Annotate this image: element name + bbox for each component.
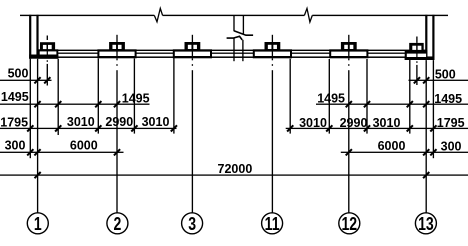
column 11 (grid 11) cap windows [268, 45, 277, 49]
svg-text:6000: 6000 [70, 139, 98, 153]
tick row D wall face left [27, 149, 33, 155]
column 1 axis dash above cap [47, 36, 48, 41]
tick row C wall face left [27, 125, 33, 131]
tick row D grid 12 [346, 149, 352, 155]
label 1495 mid right [317, 91, 345, 105]
tick row A grid 13 [423, 77, 429, 83]
svg-text:1495: 1495 [434, 92, 462, 106]
tick row A column 1 axis [44, 77, 50, 83]
label 500 right [435, 68, 456, 82]
tick row E grid 13 [423, 172, 429, 178]
left wall inner line [36, 15, 38, 55]
tick row B x409 [407, 101, 413, 107]
column 12 (grid 12) cap windows [344, 45, 353, 49]
grid bubble 1 [27, 213, 48, 235]
column 3 (grid 3) axis stub [192, 35, 193, 45]
middle break line left upper [233, 15, 234, 31]
svg-text:1: 1 [34, 214, 42, 234]
extension line at 329.3 [329, 59, 330, 134]
svg-text:500: 500 [8, 66, 29, 80]
eaves line segment 1 [20, 15, 154, 16]
grid line 12 [348, 58, 349, 213]
wall band line 3 [37, 56, 434, 58]
svg-text:2990: 2990 [105, 115, 133, 129]
grid bubble 3 [182, 213, 203, 235]
tick row B x58 [55, 101, 61, 107]
label 1495 far right [434, 92, 462, 106]
column 13 axis line (dash-dot) [416, 61, 417, 85]
extension line at 409.8 [409, 59, 410, 133]
middle break line left lower [233, 38, 234, 61]
svg-text:1795: 1795 [437, 116, 465, 130]
grid bubble 13 [415, 213, 436, 235]
eaves break symbol 1 [154, 8, 162, 21]
label 3010 left b [142, 115, 170, 129]
grid line 1 [37, 59, 38, 213]
tick row C x134 [131, 125, 137, 131]
tick row B x367 [364, 101, 370, 107]
grid line 2 [116, 58, 117, 213]
extension line at 98.3 [98, 59, 99, 134]
label 1795 right [437, 116, 465, 130]
column 2 (grid 2) axis stub [116, 35, 117, 45]
right wall face extension line [433, 60, 434, 158]
middle break jog upper stroke [234, 31, 253, 36]
label 500 left [8, 66, 29, 80]
label 2990 right [340, 116, 368, 130]
svg-text:1495: 1495 [317, 91, 345, 105]
extension line at 173.9 [173, 58, 174, 134]
tick row C x98 [95, 125, 101, 131]
svg-text:1495: 1495 [1, 90, 29, 104]
label 6000 right [378, 139, 406, 153]
extension line at 367.0 [366, 59, 367, 134]
grid line 3 [192, 58, 193, 213]
label 3010 right b [373, 116, 401, 130]
svg-text:72000: 72000 [218, 162, 253, 176]
svg-text:3010: 3010 [373, 116, 401, 130]
column 2 (grid 2) base windows [99, 52, 134, 56]
column 1 cap windows [43, 45, 52, 49]
svg-text:3010: 3010 [299, 116, 327, 130]
svg-text:3: 3 [188, 214, 196, 234]
tick row C x367 [364, 125, 370, 131]
tick row D wall face right [430, 149, 436, 155]
tick row B grid 2 [114, 101, 120, 107]
dimension line 500 left [0, 80, 52, 81]
label 300 right [441, 139, 462, 153]
eaves line segment 2 [163, 15, 305, 16]
tick row C wall face right [430, 125, 436, 131]
tick row A column 13 axis [414, 77, 420, 83]
label 3010 left a [67, 115, 95, 129]
label 1495 far left [1, 90, 29, 104]
grid bubble 2 [107, 213, 128, 235]
tick row C x58 [55, 125, 61, 131]
tick row E grid 1 [35, 172, 41, 178]
extension line at 58.2 [58, 59, 59, 135]
column 11 (grid 11) base windows [255, 52, 290, 56]
tick row D grid 2 [114, 149, 120, 155]
dimension line row D right [341, 152, 468, 153]
column 11 (grid 11) axis stub [272, 35, 273, 45]
tick row C x173 [171, 125, 177, 131]
left wall outer line [29, 15, 31, 59]
column 1 base windows [40, 51, 57, 54]
column 12 (grid 12) base windows [331, 52, 366, 56]
extension line at 290.2 [290, 59, 291, 134]
middle break jog lower stroke [227, 36, 243, 40]
dimension line row D left [0, 152, 124, 153]
svg-text:500: 500 [435, 68, 456, 82]
svg-text:1495: 1495 [122, 91, 150, 105]
wall band line 2 [37, 53, 426, 54]
svg-text:11: 11 [265, 214, 280, 234]
svg-text:2: 2 [113, 214, 121, 234]
tick row B grid 12 [346, 101, 352, 107]
tick row D grid 13 [423, 149, 429, 155]
tick row B x98 [95, 101, 101, 107]
tick row B grid 1 [34, 101, 40, 107]
dimension line row C right [286, 128, 468, 129]
column 3 (grid 3) cap windows [188, 45, 197, 49]
label 1495 mid left [122, 91, 150, 105]
eaves break symbol 2 [304, 8, 312, 22]
right wall inner line [425, 15, 427, 57]
column 13 base windows [407, 54, 426, 57]
label 1795 left [0, 115, 28, 129]
dimension line row C left [0, 128, 177, 129]
label 6000 left [70, 139, 98, 153]
dimension line 1495 right [316, 104, 468, 105]
label 3010 right a [299, 116, 327, 130]
grid bubble 11 [262, 213, 283, 235]
column 13 axis dash above cap [416, 37, 417, 43]
svg-text:1795: 1795 [0, 115, 28, 129]
dimension line 1495 left [0, 104, 150, 105]
grid line 11 [272, 58, 273, 213]
svg-text:2990: 2990 [340, 116, 368, 130]
tick row D grid 1 [34, 149, 40, 155]
column 13 body [405, 43, 435, 60]
label 72000 [218, 162, 253, 176]
tick row C x329 [326, 125, 332, 131]
column 1 body [29, 42, 58, 59]
dimension line 72000 [0, 174, 468, 175]
left wall face extension line [30, 59, 31, 158]
svg-text:12: 12 [341, 214, 357, 234]
extension line at 134.4 [134, 59, 135, 134]
right wall outer line [432, 15, 434, 60]
tick row C x409 [407, 125, 413, 131]
column 3 (grid 3) body [173, 42, 212, 58]
label 2990 left [105, 115, 133, 129]
column 3 (grid 3) base windows [175, 52, 210, 56]
eaves line segment 3 [312, 15, 448, 16]
svg-text:300: 300 [441, 139, 462, 153]
column 12 (grid 12) axis stub [348, 35, 349, 45]
column 13 cap windows [412, 46, 421, 50]
column 11 (grid 11) body [253, 42, 292, 58]
middle break line right lower [242, 40, 243, 61]
svg-text:3010: 3010 [67, 115, 95, 129]
column 2 (grid 2) cap windows [112, 45, 121, 49]
svg-text:13: 13 [418, 214, 434, 234]
svg-text:3010: 3010 [142, 115, 170, 129]
label 300 left [5, 139, 26, 153]
grid bubble 12 [339, 213, 360, 235]
tick row B grid 13 [423, 101, 429, 107]
svg-text:6000: 6000 [378, 139, 406, 153]
tick row C x290 [287, 125, 293, 131]
column 1 axis line (dash-dot) [47, 60, 48, 85]
svg-text:300: 300 [5, 139, 26, 153]
tick row A grid 1 [34, 77, 40, 83]
column 2 (grid 2) body [97, 42, 136, 58]
middle break line right upper [243, 15, 244, 33]
column 12 (grid 12) body [329, 42, 368, 58]
grid line 13 [426, 60, 427, 213]
wall band line 1 [37, 50, 426, 51]
dimension line 500 right [409, 80, 468, 81]
